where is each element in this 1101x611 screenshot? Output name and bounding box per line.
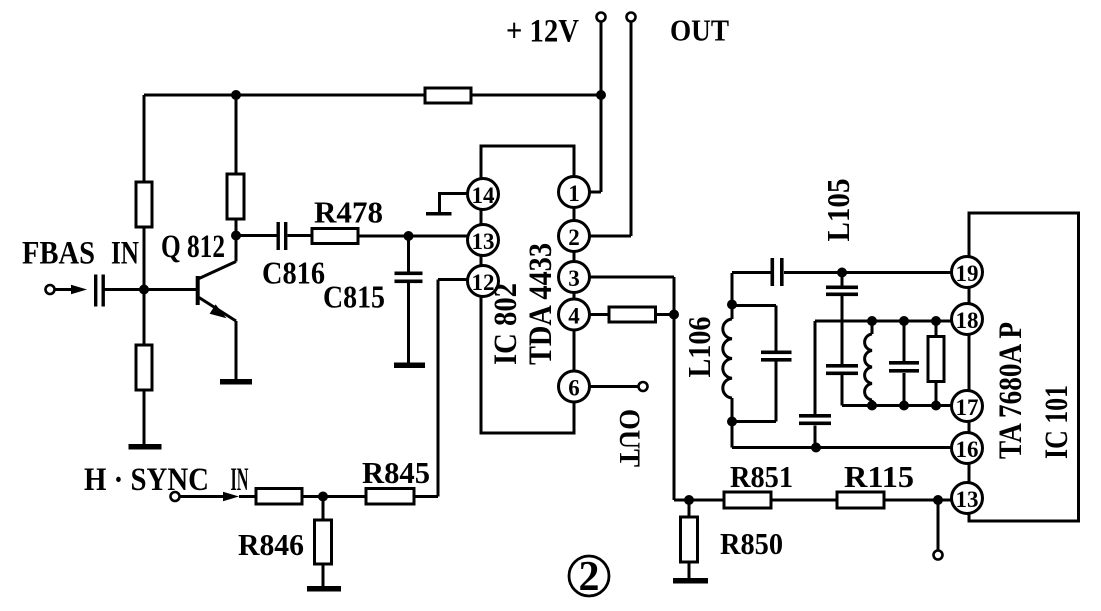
pin 14 [468, 179, 499, 210]
wire tank2 top rail pin18 [815, 320, 952, 323]
capacitor input FBAS [94, 275, 105, 307]
wire pin16 rail [732, 446, 952, 449]
inductor tank2 coil [871, 321, 874, 334]
wire +12V vertical [600, 22, 603, 193]
svg-text:19: 19 [956, 261, 979, 286]
svg-text:TA 7680A P: TA 7680A P [993, 322, 1029, 459]
wire pin3 output rail [689, 499, 952, 502]
capacitor series coupling [771, 258, 784, 286]
node top rail branch [231, 90, 241, 100]
pin 3 [559, 262, 590, 293]
svg-text:R851: R851 [730, 459, 793, 494]
wire to bottom terminal [937, 500, 940, 551]
node C815 tap [404, 231, 414, 241]
svg-text:L105: L105 [820, 179, 856, 242]
pin 16 [952, 433, 983, 464]
resistor R115 [837, 492, 884, 508]
svg-text:16: 16 [956, 437, 979, 462]
resistor bias top [425, 88, 471, 103]
node tank2 top cap [899, 316, 909, 326]
node left cap branch bottom [811, 443, 821, 453]
wire pin6 [590, 385, 639, 388]
svg-text:+ 12V: + 12V [506, 14, 579, 50]
IC U-802 box [481, 146, 574, 433]
resistor tank2 [935, 321, 938, 406]
node L106 tank bottom [727, 417, 737, 427]
svg-text:2: 2 [579, 554, 600, 600]
resistor R845 [366, 489, 414, 505]
svg-text:IC 802: IC 802 [488, 283, 524, 365]
node L105 tap [837, 268, 847, 278]
svg-text:17: 17 [956, 395, 979, 420]
ground bias bottom [129, 444, 162, 450]
inductor L106 tank [731, 273, 734, 319]
svg-text:R478: R478 [314, 195, 383, 230]
wire input [55, 288, 73, 291]
terminal OUT pin6 [639, 382, 648, 391]
resistor H-SYNC series [256, 489, 302, 505]
pin 12 [468, 266, 499, 297]
node base [139, 285, 149, 295]
terminal OUT top [627, 13, 636, 22]
transistor Q812 [198, 236, 236, 381]
svg-text:H · SYNC: H · SYNC [84, 462, 209, 498]
svg-text:TDA 4433: TDA 4433 [523, 243, 559, 365]
wire to pin19 [784, 271, 952, 274]
svg-text:6: 6 [568, 376, 580, 401]
svg-text:13: 13 [956, 487, 979, 512]
pin 18 [952, 304, 983, 335]
svg-text:12: 12 [472, 270, 495, 295]
pin 2 [559, 221, 590, 252]
wire C815 to ground [407, 283, 410, 363]
resistor bias left [136, 182, 152, 227]
arrow input FBAS [71, 285, 87, 294]
node tank2 bottom res [931, 401, 941, 411]
svg-text:13: 13 [472, 229, 495, 254]
pin 4 [559, 299, 590, 330]
terminal FBAS IN [46, 285, 55, 294]
svg-text:18: 18 [956, 308, 979, 333]
resistor R851 [724, 492, 771, 508]
ground C815 [394, 363, 425, 369]
svg-text:3: 3 [568, 266, 580, 291]
capacitor mid stack [826, 364, 858, 375]
svg-text:4: 4 [568, 304, 580, 329]
wire L106 inner cap branch [732, 306, 776, 422]
capacitor tank2 [903, 321, 906, 406]
wire R478 to pin13 [358, 235, 468, 238]
wire base to lower resistor [143, 290, 146, 445]
wire collector vertical branch [235, 95, 238, 236]
node L106 tank top [727, 300, 737, 310]
node tank2 top coil [867, 316, 877, 326]
svg-text:FBAS: FBAS [22, 236, 95, 272]
svg-text:Q 812: Q 812 [161, 229, 225, 265]
wire pin3 [590, 277, 690, 500]
wire pin4 [590, 313, 675, 316]
wire pin1 to +12V [590, 191, 602, 194]
svg-text:IN: IN [111, 236, 139, 272]
svg-text:2: 2 [568, 225, 580, 250]
svg-text:IN: IN [231, 462, 249, 498]
resistor R850 [688, 500, 691, 578]
wire top supply rail [144, 94, 601, 97]
wire to tank2 bottom rail [841, 375, 844, 406]
node tank2 bottom cap [899, 401, 909, 411]
wire tank2 left branch [814, 321, 817, 448]
node R850 tap [684, 495, 694, 505]
node tank2 top res [931, 316, 941, 326]
svg-text:OUT: OUT [670, 13, 729, 48]
capacitor C816 [236, 234, 312, 237]
svg-text:R846: R846 [238, 527, 304, 562]
node +12V rail junction [596, 90, 606, 100]
pin 19 [952, 257, 983, 288]
IC U-101 box [969, 213, 1079, 521]
wire L105 cap down [841, 296, 844, 365]
svg-text:OUT: OUT [613, 409, 646, 467]
capacitor L105 upper [841, 273, 844, 287]
resistor collector load [227, 174, 244, 219]
ground pin14 step [440, 194, 468, 213]
node R846 tap [318, 492, 328, 502]
resistor pin4 series [609, 307, 656, 322]
node pin4 junction [669, 310, 679, 320]
ground R846 [307, 586, 341, 592]
node tank2 bottom coil [867, 401, 877, 411]
svg-text:R850: R850 [720, 526, 783, 561]
svg-text:14: 14 [472, 183, 496, 208]
ground emitter [220, 379, 252, 385]
wire L106 top rail [732, 271, 771, 274]
svg-text:IC 101: IC 101 [1039, 385, 1075, 459]
wire pin2 to OUT [590, 235, 632, 238]
resistor R846 [322, 497, 325, 588]
arrow H-SYNC [223, 492, 239, 501]
pin 6 [559, 371, 590, 402]
capacitor L106 parallel [761, 351, 792, 362]
pin 17 [952, 391, 983, 422]
pin 13b [952, 483, 983, 514]
wire base [105, 288, 197, 291]
terminal bottom [934, 551, 943, 560]
capacitor C815 [407, 236, 410, 272]
wire H-SYNC rail [180, 280, 468, 497]
svg-text:C816: C816 [262, 255, 325, 291]
wire OUT vertical [630, 22, 633, 237]
svg-text:R845: R845 [362, 455, 430, 490]
node pin13 tap [933, 495, 943, 505]
resistor emitter bias lower [136, 345, 152, 390]
pin 1 [559, 177, 590, 208]
pin 13 [468, 225, 499, 256]
terminal H-SYNC IN [171, 492, 180, 501]
circled figure number 2 [569, 556, 609, 596]
wire tank2 bottom rail pin17 [842, 404, 952, 407]
wire left bias vertical [143, 95, 146, 290]
resistor R478 [312, 229, 358, 244]
svg-text:L106: L106 [681, 317, 717, 378]
terminal +12V [597, 13, 606, 22]
svg-text:C815: C815 [323, 279, 385, 315]
capacitor left branch [799, 414, 831, 425]
svg-text:1: 1 [568, 181, 580, 206]
node collector [231, 231, 241, 241]
svg-text:R115: R115 [844, 459, 914, 494]
ground R850 [673, 578, 708, 584]
